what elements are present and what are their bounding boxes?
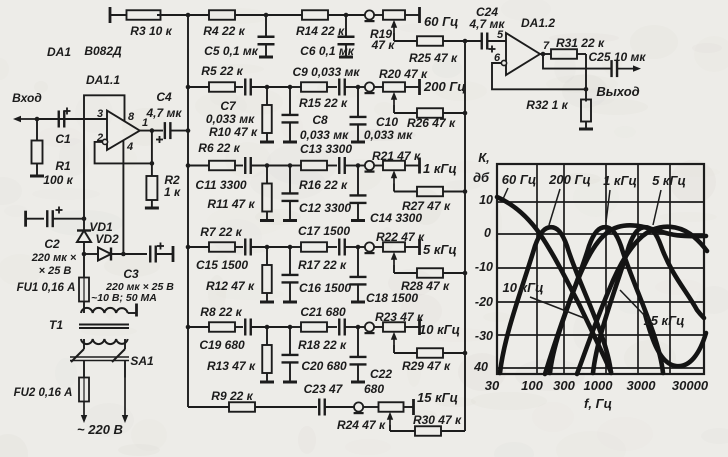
fuse FU1 0,16А xyxy=(17,254,89,309)
node: secondary terminal xyxy=(135,304,138,317)
potentiometer R23 47к xyxy=(358,322,420,345)
svg-text:3: 3 xyxy=(97,108,103,120)
resistor R28 47к xyxy=(394,265,465,278)
svg-text:220 мк ×: 220 мк × xyxy=(31,252,77,264)
capacitor C15 1500 xyxy=(245,239,267,256)
ground C16 xyxy=(283,301,297,304)
chart: curve 10 кГц xyxy=(545,225,706,374)
svg-text:30000: 30000 xyxy=(672,378,709,393)
ground C8 xyxy=(283,141,297,144)
node: 15 kHz terminal xyxy=(412,399,415,415)
wire DA1.1 pin 4 to negative rail xyxy=(122,141,124,255)
label C20 680 xyxy=(301,359,347,373)
svg-text:C7: C7 xyxy=(220,99,237,113)
svg-text:R13 47 к: R13 47 к xyxy=(207,359,256,373)
svg-text:SA1: SA1 xyxy=(130,354,154,368)
wire output to C25 xyxy=(543,54,611,69)
svg-text:C14 3300: C14 3300 xyxy=(370,211,422,225)
svg-text:C25 10 мк: C25 10 мк xyxy=(589,50,647,64)
chart: curve bottom notch xyxy=(645,314,706,366)
ground R11 xyxy=(260,219,274,222)
junction C15/R12 xyxy=(265,245,270,250)
resistor R3 10к xyxy=(110,7,188,38)
junction feedback node xyxy=(584,87,589,92)
capacitor C1 xyxy=(55,108,71,147)
svg-text:1000: 1000 xyxy=(584,378,614,393)
svg-text:DA1: DA1 xyxy=(47,45,71,59)
chart: x-axis label 1000 xyxy=(584,378,614,393)
junction bus row 4 xyxy=(186,245,191,250)
ground R12 xyxy=(260,301,274,304)
capacitor C21 680 xyxy=(339,319,358,336)
resistor R2 1к xyxy=(146,131,181,207)
svg-text:100: 100 xyxy=(521,378,543,393)
svg-text:10 кГц: 10 кГц xyxy=(502,280,543,295)
junction C13/C14 xyxy=(356,163,361,168)
label C12 3300 xyxy=(299,201,351,215)
resistor R26 47к xyxy=(394,105,465,118)
ground R10 xyxy=(260,141,274,144)
label C23 47 xyxy=(304,382,344,396)
svg-text:DA1.1: DA1.1 xyxy=(86,73,120,87)
ground R1 xyxy=(30,175,44,178)
chart: x-axis label 300 xyxy=(553,378,575,393)
potentiometer R22 47к xyxy=(358,242,420,265)
svg-text:× 25 В: × 25 В xyxy=(39,265,72,277)
ground C10 xyxy=(351,141,365,144)
svg-text:C1: C1 xyxy=(55,132,71,146)
capacitor C10 0,033 мк xyxy=(350,87,367,141)
svg-text:C16 1500: C16 1500 xyxy=(299,281,351,295)
label 15 кГц xyxy=(417,390,458,405)
svg-text:R12 47 к: R12 47 к xyxy=(206,279,255,293)
node: 60 Hz terminal xyxy=(420,7,459,29)
junction C11/R11 xyxy=(265,163,270,168)
chart: y-axis label -10 xyxy=(475,260,493,274)
resistor R27 47к xyxy=(394,184,465,197)
svg-text:C13 3300: C13 3300 xyxy=(300,142,352,156)
capacitor C16 1500 xyxy=(282,247,299,301)
capacitor C18 1500 xyxy=(350,247,367,301)
svg-text:R17 22 к: R17 22 к xyxy=(298,258,347,272)
svg-text:R24 47 к: R24 47 к xyxy=(337,418,386,432)
svg-text:C12 3300: C12 3300 xyxy=(299,201,351,215)
svg-text:30: 30 xyxy=(485,378,500,393)
label R9 22к xyxy=(211,389,253,403)
label C10 0,033мк xyxy=(364,115,413,142)
node: mains terminal left xyxy=(81,402,87,424)
wire DA1.2 output xyxy=(540,53,551,55)
wire R31 to feedback node xyxy=(585,54,587,102)
transformer T1 secondary winding xyxy=(49,308,137,332)
svg-text:47 к: 47 к xyxy=(371,38,396,52)
chart: y-axis label -20 xyxy=(475,295,493,309)
label R30 47к xyxy=(413,413,462,427)
junction bus row 1 xyxy=(186,13,191,18)
capacitor C7 0,033 мк xyxy=(245,79,267,96)
svg-text:R6 22 к: R6 22 к xyxy=(198,141,240,155)
potentiometer R24 47к xyxy=(354,402,414,425)
chart: curve 200 Гц xyxy=(500,227,611,373)
label R15 22к xyxy=(299,96,348,110)
svg-text:C23 47: C23 47 xyxy=(304,382,344,396)
junction C7/R10 xyxy=(265,85,270,90)
chart: curve 5 кГц xyxy=(593,227,704,373)
node: mains terminal right xyxy=(122,378,128,424)
resistor R18 22к xyxy=(290,322,337,332)
ground C12 xyxy=(283,219,297,222)
svg-text:15 кГц: 15 кГц xyxy=(643,313,684,328)
svg-text:DA1.2: DA1.2 xyxy=(521,16,555,30)
junction output pin 7 xyxy=(541,52,546,57)
ground C6 xyxy=(339,56,353,59)
chart: y-axis label 40 xyxy=(473,360,488,374)
chart: y-axis label -30 xyxy=(475,329,493,343)
junction C20 xyxy=(267,325,292,330)
svg-text:0,033 мк: 0,033 мк xyxy=(206,112,255,126)
svg-text:680: 680 xyxy=(364,382,384,396)
node: 10 кГц terminal xyxy=(418,319,421,335)
svg-text:R5 22 к: R5 22 к xyxy=(201,64,243,78)
ground C22 xyxy=(351,381,365,384)
label C8 0,033мк xyxy=(300,113,349,142)
label R26 47к xyxy=(407,116,456,130)
resistor R13 47к xyxy=(262,327,272,381)
svg-text:R1: R1 xyxy=(55,159,71,173)
DA1.1 pin 2 label xyxy=(96,132,103,144)
node: input terminal Вход xyxy=(12,91,42,122)
svg-text:R23 47 к: R23 47 к xyxy=(375,310,424,324)
svg-text:Т1: Т1 xyxy=(49,318,63,332)
svg-text:FU2 0,16 А: FU2 0,16 А xyxy=(14,387,73,399)
resistor R29 47к xyxy=(394,345,465,358)
label C18 1500 xyxy=(366,291,418,305)
svg-text:0: 0 xyxy=(484,226,491,240)
label R21 47к xyxy=(372,149,421,163)
svg-text:R30 47 к: R30 47 к xyxy=(413,413,462,427)
ground R2 xyxy=(145,207,159,210)
label R27 47к xyxy=(402,199,451,213)
svg-text:К,: К, xyxy=(478,150,490,165)
svg-text:Вход: Вход xyxy=(12,91,42,105)
svg-text:0,033 мк: 0,033 мк xyxy=(364,128,413,142)
svg-text:FU1 0,16 А: FU1 0,16 А xyxy=(17,282,76,294)
chart: band label 10 кГц xyxy=(502,280,584,318)
switch SA1 xyxy=(70,349,154,378)
chart: x-axis title f, Гц xyxy=(584,396,612,411)
label R16 22к xyxy=(299,178,348,192)
chart: y-axis label 10 xyxy=(479,193,493,207)
op-amp DA1.2 xyxy=(501,16,555,75)
junction R28 to bus xyxy=(463,271,468,276)
svg-text:200 Гц: 200 Гц xyxy=(548,172,591,187)
DA1.2 pin 5 label xyxy=(497,29,504,41)
junction C12 xyxy=(267,163,292,168)
junction R4/C5 xyxy=(264,13,269,18)
svg-text:5 кГц: 5 кГц xyxy=(423,242,457,257)
ground R13 xyxy=(260,381,274,384)
junction C21/C22 xyxy=(356,325,361,330)
wire DA1.1 pin 2 feedback loop xyxy=(95,142,152,164)
label C17 1500 xyxy=(298,224,350,238)
node: output terminal Выход xyxy=(596,65,641,99)
svg-text:300: 300 xyxy=(553,378,575,393)
capacitor C14 3300 xyxy=(350,166,367,220)
fuse FU2 0,16А xyxy=(14,378,89,402)
svg-text:R9 22 к: R9 22 к xyxy=(211,389,253,403)
svg-text:C22: C22 xyxy=(370,367,392,381)
svg-text:200 Гц: 200 Гц xyxy=(423,79,466,94)
resistor R32 1к xyxy=(526,98,591,128)
resistor R30 47к xyxy=(390,425,465,436)
label C16 1500 xyxy=(299,281,351,295)
label C13 3300 xyxy=(300,142,352,156)
label C9 0,033мк xyxy=(293,65,361,79)
junction feedback/output xyxy=(150,161,155,166)
label C7 0,033мк xyxy=(206,99,255,126)
chart: curve 15 кГц xyxy=(577,227,707,374)
capacitor C4 4,7мк xyxy=(146,90,188,143)
label C11 3300 xyxy=(195,178,246,192)
chart: curve 60 Гц xyxy=(497,197,611,372)
label 5 кГц xyxy=(423,242,457,257)
DA1.1 pin 1 label xyxy=(142,117,148,129)
svg-text:C21 680: C21 680 xyxy=(300,305,346,319)
svg-text:R32 1 к: R32 1 к xyxy=(526,98,568,112)
junction bus row 5 xyxy=(186,325,191,330)
resistor R16 22к xyxy=(290,161,337,171)
svg-text:R22 47 к: R22 47 к xyxy=(376,230,425,244)
svg-text:100 к: 100 к xyxy=(43,173,73,187)
resistor R25 47к xyxy=(394,33,465,65)
capacitor C25 10мк xyxy=(589,50,647,77)
junction C9/C10 xyxy=(356,85,361,90)
svg-text:40: 40 xyxy=(473,360,488,374)
svg-text:C4: C4 xyxy=(156,90,172,104)
capacitor C12 3300 xyxy=(282,166,299,220)
svg-text:R15 22 к: R15 22 к xyxy=(299,96,348,110)
resistor R9 22к xyxy=(188,402,317,412)
svg-text:C18 1500: C18 1500 xyxy=(366,291,418,305)
capacitor C2 220мк x 25В xyxy=(26,207,84,278)
chart: band label 1 кГц xyxy=(603,173,637,222)
svg-text:R7 22 к: R7 22 к xyxy=(200,225,242,239)
label R6 22к xyxy=(198,141,240,155)
label R22 47к xyxy=(376,230,425,244)
svg-text:~10 В; 50 МА: ~10 В; 50 МА xyxy=(91,292,157,304)
label R8 22к xyxy=(200,305,242,319)
svg-text:60 Гц: 60 Гц xyxy=(424,14,458,29)
ground C5 xyxy=(259,56,273,59)
svg-text:R20 47 к: R20 47 к xyxy=(379,67,428,81)
resistor R4 22к xyxy=(188,10,266,38)
svg-text:R25 47 к: R25 47 к xyxy=(409,51,458,65)
potentiometer R21 47к xyxy=(358,161,420,184)
junction bus row 2 xyxy=(186,85,191,90)
svg-text:C19 680: C19 680 xyxy=(199,338,245,352)
label R29 47к xyxy=(402,359,451,373)
capacitor C9 0,033 мк xyxy=(339,79,358,96)
svg-text:R8 22 к: R8 22 к xyxy=(200,305,242,319)
svg-text:R16 22 к: R16 22 к xyxy=(299,178,348,192)
svg-text:f, Гц: f, Гц xyxy=(584,396,612,411)
svg-text:C5 0,1 мк: C5 0,1 мк xyxy=(204,44,259,58)
label R24 47к xyxy=(337,418,386,432)
resistor R17 22к xyxy=(290,242,337,252)
svg-text:8: 8 xyxy=(128,111,135,123)
svg-text:7: 7 xyxy=(543,40,550,52)
chart: band label 200 Гц xyxy=(548,172,591,225)
svg-text:10 кГц: 10 кГц xyxy=(419,322,460,337)
DA1.2 pin 7 label xyxy=(543,40,550,52)
svg-text:R4 22 к: R4 22 к xyxy=(203,24,245,38)
resistor R10 47к xyxy=(262,87,272,141)
label 200 Гц xyxy=(423,79,466,94)
resistor R8 22к xyxy=(188,322,243,332)
chart: x-axis label 30000 xyxy=(672,378,709,393)
junction C16 xyxy=(267,245,292,250)
junction C17/C18 xyxy=(356,245,361,250)
ground R32 xyxy=(579,128,593,131)
svg-text:5: 5 xyxy=(497,29,504,41)
label C15 1500 xyxy=(196,258,248,272)
DA1.1 pin 8 label xyxy=(128,111,135,123)
wire DA1.1 pin 8 supply rail xyxy=(84,95,125,218)
capacitor C24 4,7мк xyxy=(465,5,506,53)
transformer T1 primary winding xyxy=(81,339,128,349)
svg-text:3000: 3000 xyxy=(627,378,657,393)
chart: band label 5 кГц xyxy=(652,173,686,225)
svg-text:4,7 мк: 4,7 мк xyxy=(146,106,183,120)
svg-text:R31 22 к: R31 22 к xyxy=(556,36,605,50)
resistor R15 22к xyxy=(290,82,337,92)
svg-text:-20: -20 xyxy=(475,295,493,309)
node: 200 Гц terminal xyxy=(418,79,421,95)
transformer T1 core xyxy=(79,325,129,329)
svg-text:1 к: 1 к xyxy=(164,185,181,199)
svg-text:В082Д: В082Д xyxy=(84,44,122,58)
resistor R11 47к xyxy=(262,166,272,220)
capacitor C22 680 xyxy=(350,327,367,381)
resistor R14 22к xyxy=(266,10,346,38)
node: 5 кГц terminal xyxy=(418,239,421,255)
label C14 3300 xyxy=(370,211,422,225)
svg-text:15 кГц: 15 кГц xyxy=(417,390,458,405)
svg-text:C2: C2 xyxy=(44,237,60,251)
node: C3 terminal xyxy=(172,246,175,262)
junction VD1 / VD2 / pin4 xyxy=(82,252,126,257)
potentiometer R20 47к xyxy=(358,82,420,105)
chart: x-axis label 100 xyxy=(521,378,543,393)
label R28 47к xyxy=(401,279,450,293)
capacitor C11 3300 xyxy=(245,157,267,174)
chart: band label 15 кГц xyxy=(620,290,685,328)
label R10 47к xyxy=(209,125,258,139)
node: 1 кГц terminal xyxy=(418,158,421,174)
DA1.1 pin 3 label xyxy=(97,108,103,120)
junction C2 / VD1 rail xyxy=(82,216,87,221)
capacitor C19 680 xyxy=(245,319,267,336)
svg-text:10: 10 xyxy=(479,193,493,207)
resistor R1 100к xyxy=(32,119,74,187)
junction R26 to bus xyxy=(463,111,468,116)
chart: band label 60 Гц xyxy=(502,172,536,199)
wire: left distribution bus xyxy=(187,15,189,407)
label R11 47к xyxy=(207,197,255,211)
svg-text:R3 10 к: R3 10 к xyxy=(130,24,172,38)
svg-text:C10: C10 xyxy=(376,115,398,129)
chart: x-axis label 3000 xyxy=(627,378,657,393)
junction R25 to bus xyxy=(463,39,468,44)
junction C4 to bus xyxy=(186,128,191,133)
diode VD1 xyxy=(77,219,113,254)
svg-text:C9 0,033 мк: C9 0,033 мк xyxy=(293,65,361,79)
svg-text:5 кГц: 5 кГц xyxy=(652,173,686,188)
svg-text:R11 47 к: R11 47 к xyxy=(207,197,255,211)
svg-text:R10 47 к: R10 47 к xyxy=(209,125,258,139)
label 1 кГц xyxy=(423,161,457,176)
label R20 47к xyxy=(379,67,428,81)
ground C18 xyxy=(351,301,365,304)
label R7 22к xyxy=(200,225,242,239)
resistor R5 22к xyxy=(188,82,243,92)
label R13 47к xyxy=(207,359,256,373)
resistor R6 22к xyxy=(188,161,243,171)
svg-text:60 Гц: 60 Гц xyxy=(502,172,536,187)
resistor R12 47к xyxy=(262,247,272,301)
svg-text:0,033 мк: 0,033 мк xyxy=(300,128,349,142)
svg-text:4: 4 xyxy=(126,141,133,153)
diode VD2 xyxy=(84,232,147,261)
capacitor C5 0,1мк xyxy=(204,15,274,58)
chart: curve 1 кГц xyxy=(550,227,663,373)
DA1.1 pin 4 label xyxy=(126,141,133,153)
svg-text:C17 1500: C17 1500 xyxy=(298,224,350,238)
chart: x-axis label 30 xyxy=(485,378,500,393)
label C19 680 xyxy=(199,338,245,352)
label R5 22к xyxy=(201,64,243,78)
junction R29 to bus xyxy=(463,351,468,356)
capacitor C13 3300 xyxy=(339,157,358,174)
junction C19/R13 xyxy=(265,325,270,330)
capacitor C17 1500 xyxy=(339,239,358,256)
label R18 22к xyxy=(298,338,347,352)
junction bus row 3 xyxy=(186,163,191,168)
wire input to op-amp pin 3 xyxy=(37,118,107,120)
ground C14 xyxy=(351,219,365,222)
junction output node xyxy=(150,128,155,133)
svg-text:1 кГц: 1 кГц xyxy=(603,173,637,188)
junction C8 xyxy=(267,85,292,90)
DA1.2 pin 6 label xyxy=(494,52,501,64)
resistor R31 22к xyxy=(551,36,605,59)
svg-text:R26 47 к: R26 47 к xyxy=(407,116,456,130)
chart: axis label К, дб xyxy=(473,150,490,185)
chart: vertical gridlines xyxy=(537,164,670,374)
capacitor C8 0,033 мк xyxy=(282,87,299,141)
svg-text:R21 47 к: R21 47 к xyxy=(372,149,421,163)
svg-text:Выход: Выход xyxy=(596,84,639,99)
capacitor C23 47 xyxy=(319,399,354,416)
junction R27 to bus xyxy=(463,189,468,194)
label C21 680 xyxy=(300,305,346,319)
svg-text:C20 680: C20 680 xyxy=(301,359,347,373)
label DA1 B082D xyxy=(47,44,122,59)
capacitor C6 0,1мк xyxy=(300,15,355,58)
svg-text:R29 47 к: R29 47 к xyxy=(402,359,451,373)
svg-text:C8: C8 xyxy=(312,113,328,127)
label 10 кГц xyxy=(419,322,460,337)
